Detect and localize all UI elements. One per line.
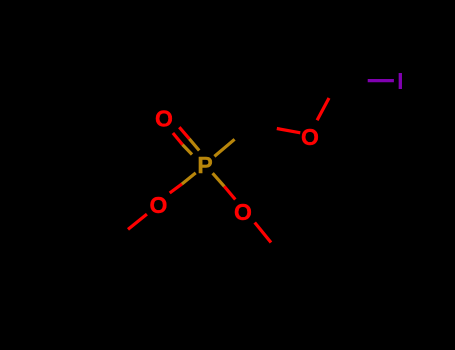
svg-text:I: I xyxy=(397,68,403,94)
svg-text:O: O xyxy=(150,192,168,218)
svg-text:O: O xyxy=(234,199,252,225)
svg-text:P: P xyxy=(197,152,212,178)
svg-text:O: O xyxy=(301,124,319,150)
svg-text:O: O xyxy=(155,106,173,132)
